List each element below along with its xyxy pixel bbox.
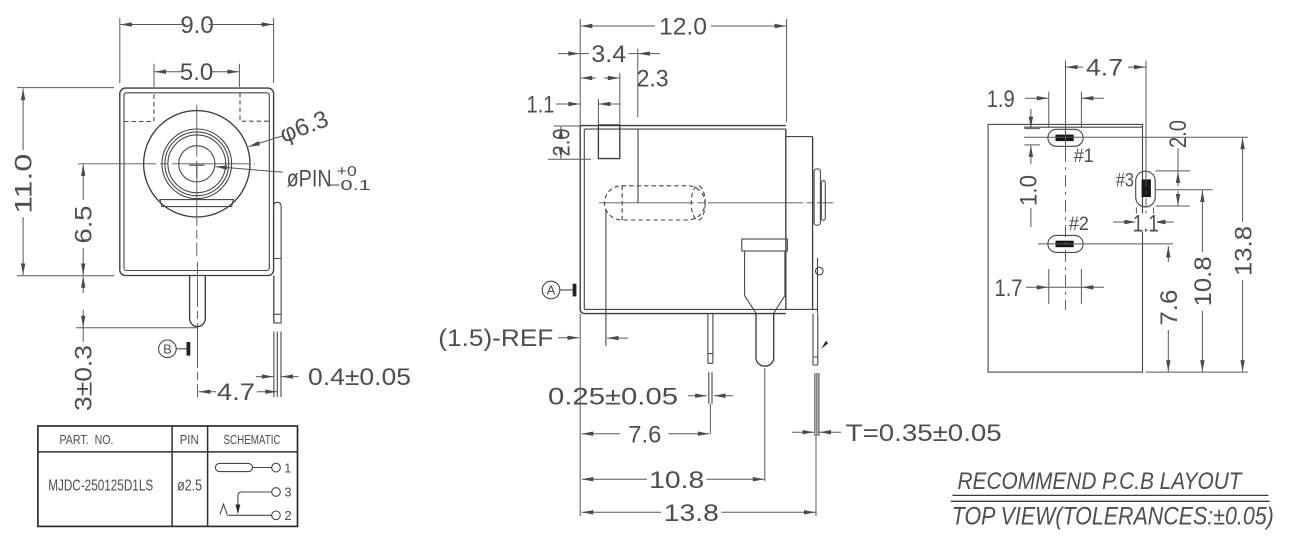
dim 0.4+-0.05	[256, 364, 411, 391]
horizontal centerline	[78, 163, 255, 165]
dim 3+-0.3 extension line at pin bottom	[76, 327, 198, 329]
hidden pin dome tangent	[621, 186, 623, 220]
dim 4.7 (pcb)	[1066, 55, 1146, 82]
key bar at circle bottom	[160, 200, 233, 207]
pads 1-2 column centerline	[1065, 61, 1067, 310]
schematic wire pin3 with switch arrow	[236, 492, 272, 514]
vertical centerline	[196, 105, 198, 256]
bushing ring inner	[168, 135, 226, 193]
leader dia 6.3	[248, 105, 332, 148]
svg-text:(1.5)-REF: (1.5)-REF	[438, 325, 553, 352]
dim 1.1 pcb ticks	[1136, 208, 1153, 232]
pad #1 hole	[1056, 135, 1074, 142]
front face extension line below body	[579, 314, 581, 516]
front pin extension line	[709, 404, 711, 434]
svg-text:1.9: 1.9	[987, 86, 1015, 113]
rear housing right edge	[812, 137, 814, 310]
svg-text:3: 3	[284, 485, 291, 500]
schematic symbol: plug barrel	[215, 463, 271, 471]
dim 4.7	[199, 379, 277, 406]
body inner outline	[124, 93, 269, 271]
datum B symbol	[159, 340, 191, 358]
schematic pin 2 circle	[272, 511, 281, 520]
center terminal sides	[745, 251, 785, 296]
datum A symbol	[542, 281, 576, 299]
dim 12.0	[581, 14, 786, 41]
center pin tip cross	[189, 165, 205, 178]
svg-text:7.6: 7.6	[1156, 290, 1183, 326]
svg-text:PART. NO.: PART. NO.	[60, 432, 114, 447]
center terminal narrow pin with round bottom	[756, 313, 774, 366]
svg-text:10.8: 10.8	[649, 467, 704, 494]
bushing ring middle	[165, 132, 229, 196]
svg-text:MJDC-250125D1LS: MJDC-250125D1LS	[48, 478, 153, 495]
title underline 2	[951, 500, 1270, 502]
svg-text:1.0: 1.0	[1016, 175, 1043, 206]
rear rivet	[816, 267, 824, 275]
svg-text:13.8: 13.8	[664, 500, 719, 527]
svg-text:2.3: 2.3	[637, 66, 669, 93]
dim 7.6	[582, 421, 710, 448]
svg-text:0.4±0.05: 0.4±0.05	[308, 364, 411, 391]
dim 1.1 pcb	[1113, 210, 1174, 237]
svg-text:7.6: 7.6	[628, 421, 661, 448]
table header divider	[38, 451, 298, 453]
dim 3.4	[558, 41, 660, 68]
bushing face circle (dia 6.3)	[144, 111, 250, 217]
svg-text:−0.1: −0.1	[328, 177, 371, 194]
dim 2.3	[581, 66, 669, 93]
dim 2.0 (rotated)	[548, 127, 575, 159]
dim 3+-0.3	[71, 276, 98, 411]
svg-text:1.1: 1.1	[1133, 210, 1159, 237]
svg-text:#2: #2	[1069, 214, 1089, 235]
front face inner line	[583, 129, 585, 309]
svg-text:A: A	[547, 283, 556, 298]
svg-text:TOP VIEW(TOLERANCES:±0.05): TOP VIEW(TOLERANCES:±0.05)	[952, 503, 1274, 531]
svg-text:5.0: 5.0	[180, 59, 213, 86]
hidden notch top-right	[240, 93, 269, 121]
front face outer + bottom outer outline	[580, 126, 786, 314]
svg-text:4.7: 4.7	[1086, 55, 1123, 82]
dim 1.9	[987, 86, 1104, 113]
pad #2 hole	[1056, 241, 1074, 248]
svg-text:2.0: 2.0	[1165, 120, 1192, 148]
svg-text:6.5: 6.5	[71, 206, 98, 244]
hidden center pin stadium	[605, 186, 706, 220]
dim T=0.35+-0.05	[792, 420, 1002, 447]
dim 9.0 extension lines	[120, 18, 274, 83]
schematic pin 1 circle	[272, 463, 281, 472]
front pin thin section	[709, 372, 712, 404]
table column divider 2	[207, 426, 209, 526]
rear pin inner edge	[817, 258, 819, 313]
svg-text:#3: #3	[1116, 170, 1134, 191]
rear pin thin section (T=0.35)	[815, 373, 819, 436]
svg-text:1.1: 1.1	[527, 92, 555, 119]
svg-text:11.0: 11.0	[11, 154, 38, 214]
vertical centerline lower (through pin)	[197, 262, 199, 397]
center terminal extension line	[764, 368, 766, 481]
horizontal centerline	[599, 202, 833, 204]
rear pin extension line	[815, 436, 817, 516]
dim 11.0 extension lines	[17, 88, 114, 276]
top outer edge	[580, 125, 786, 127]
dim 12.0 extension lines	[580, 19, 786, 126]
dim 11.0	[11, 89, 38, 275]
thin solder terminal (0.4 thick)	[274, 332, 281, 398]
dim 1.7	[995, 275, 1105, 302]
dim 1.0 ticks	[1024, 129, 1040, 145]
lug left edge below body	[273, 276, 275, 323]
center terminal cap	[742, 239, 788, 251]
front pin (7.6 position)	[708, 314, 713, 364]
dim 2.0 pcb (rotated)	[1165, 120, 1192, 206]
rear terminal tab outer	[814, 169, 820, 225]
dim 1.1 extension line (tab left edge up)	[597, 99, 599, 125]
svg-text:B: B	[163, 342, 172, 357]
dim 2.0 extension lines	[548, 126, 591, 159]
board top edge second line	[1024, 126, 1143, 128]
rear terminal tab inner	[821, 181, 825, 221]
dim 1.7 extension ticks	[1049, 269, 1082, 304]
dim 13.8	[582, 500, 816, 527]
svg-text:RECOMMEND P.C.B LAYOUT: RECOMMEND P.C.B LAYOUT	[958, 468, 1244, 495]
svg-text:4.7: 4.7	[217, 379, 255, 406]
bushing ring outer	[162, 129, 232, 199]
dim 13.8 pcb (rotated)	[1230, 138, 1257, 372]
stray leader arrowhead at rear pin	[821, 341, 828, 349]
pad 3 column centerline / 4.7 extension	[1145, 61, 1147, 218]
dim 1.0 (rotated)	[1016, 109, 1043, 227]
svg-text:PIN: PIN	[180, 432, 199, 447]
leader pin diameter	[216, 163, 371, 194]
center terminal taper	[745, 296, 785, 314]
title underline 1	[952, 494, 1268, 496]
dim 1.9 extension ticks	[1049, 92, 1082, 129]
dim 2.0 pcb ticks	[1156, 171, 1191, 206]
board outline	[988, 124, 1142, 372]
pad #3 stadium	[1136, 171, 1156, 207]
hidden notch top-left	[124, 93, 154, 122]
dim 9.0	[120, 12, 273, 39]
svg-text:3.4: 3.4	[591, 41, 626, 68]
schematic spring contact chevron	[220, 504, 227, 514]
svg-text:1.7: 1.7	[995, 275, 1023, 302]
rear pin (13.8 position)	[813, 314, 818, 365]
inner vertical line (3.4 feature)	[637, 129, 639, 203]
bottom inner edge	[584, 308, 817, 310]
side lug	[274, 202, 282, 323]
dim 2.3 extension line (tab right edge up)	[619, 73, 621, 125]
svg-text:12.0: 12.0	[659, 14, 707, 41]
dim 5.0	[155, 59, 239, 86]
svg-text:2: 2	[284, 508, 291, 523]
hidden pin tip ellipse	[691, 186, 705, 220]
dim 10.8	[582, 467, 765, 494]
dim 0.25+-0.05	[548, 383, 733, 410]
dim 1.1	[527, 92, 621, 119]
pad #2 horizontal centerline / 7.6 extension	[1038, 243, 1173, 245]
table outer border	[38, 426, 298, 526]
terminal #2 tab top-left	[598, 125, 619, 159]
body right edge	[785, 129, 787, 309]
svg-text:SCHEMATIC: SCHEMATIC	[224, 432, 281, 447]
table column divider 1	[171, 426, 173, 526]
schematic wire pin2	[227, 514, 271, 516]
bottom extension line	[1146, 371, 1248, 373]
dim 3.4 extension line	[637, 49, 639, 117]
pad #2 stadium	[1048, 235, 1083, 252]
front inner wall / mounting boss edge	[605, 209, 607, 346]
svg-text:10.8: 10.8	[1190, 256, 1217, 306]
dim 6.5	[71, 164, 98, 275]
svg-text:13.8: 13.8	[1230, 226, 1257, 276]
svg-text:2.0: 2.0	[548, 129, 575, 157]
body outer outline	[120, 88, 274, 275]
svg-text:øPIN: øPIN	[287, 166, 332, 193]
schematic pin 3 circle	[272, 488, 281, 497]
top inner edge	[584, 128, 786, 130]
pad #1 stadium	[1048, 129, 1083, 146]
svg-text:9.0: 9.0	[180, 12, 213, 39]
dim 5.0 ticks	[154, 64, 239, 87]
center pin below body	[190, 276, 206, 327]
svg-text:0.25±0.05: 0.25±0.05	[548, 383, 678, 410]
pad #3 hole	[1142, 179, 1151, 197]
pad #1 horizontal centerline / 13.8 extension	[1024, 136, 1248, 138]
svg-text:ø2.5: ø2.5	[177, 478, 202, 495]
pad #3 horizontal centerline / 10.8 extension	[1155, 189, 1212, 191]
dim (1.5)-REF	[438, 325, 628, 352]
svg-text:T=0.35±0.05: T=0.35±0.05	[846, 420, 1002, 447]
dim 7.6 pcb (rotated)	[1156, 246, 1183, 372]
svg-text:#1: #1	[1074, 146, 1094, 167]
pin hole circle	[179, 146, 215, 182]
dim 10.8 pcb (rotated)	[1190, 191, 1217, 372]
svg-text:1: 1	[284, 460, 291, 475]
svg-text:3±0.3: 3±0.3	[71, 345, 98, 411]
rear housing top	[786, 136, 813, 138]
